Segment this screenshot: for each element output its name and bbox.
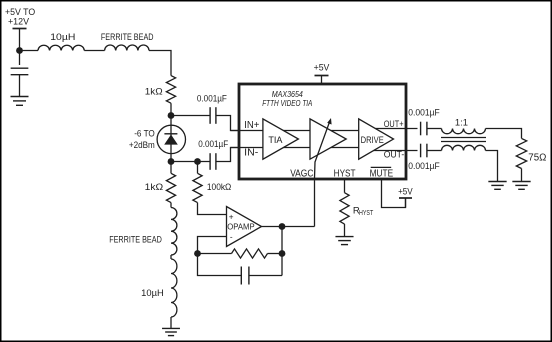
transformer T1 primary winding (442, 129, 486, 134)
wire opamp - input (198, 237, 227, 254)
svg-text:+5V TO: +5V TO (5, 7, 35, 17)
photodiode D1 circle (157, 125, 185, 153)
node C photodiode anode dot (168, 158, 175, 165)
resistor R2 1kΩ (166, 173, 175, 202)
VGA gain arrowhead (327, 118, 331, 125)
svg-text:0.001µF: 0.001µF (198, 139, 228, 149)
svg-text:IN-: IN- (244, 147, 258, 158)
svg-text:IN+: IN+ (244, 120, 259, 131)
svg-text:HYST: HYST (359, 210, 374, 217)
ferrite bead FB2 (171, 208, 177, 256)
node E feedback left dot (194, 250, 201, 257)
svg-text:+2dBm: +2dBm (129, 140, 155, 150)
ground G1 (11, 96, 29, 98)
svg-text:HYST: HYST (334, 168, 356, 179)
svg-text:10µH: 10µH (141, 288, 164, 298)
svg-text:VAGC: VAGC (290, 168, 313, 179)
resistor R6 75Ω (516, 138, 526, 168)
node A supply junction dot (16, 47, 23, 54)
wire R3 to opamp + (198, 203, 227, 215)
capacitor C1 bypass (11, 67, 29, 69)
wire R1 to node B (170, 103, 172, 115)
wire rail IN- inside chip (231, 147, 371, 149)
wire R2 to FB2 (170, 203, 172, 208)
op-amp DRIVE A3 triangle (359, 119, 394, 159)
op-amp U2 triangle (227, 207, 262, 247)
transformer T1 secondary winding (442, 145, 486, 150)
photodiode D1 cathode bar (164, 133, 177, 135)
wire VAGC arrow line (315, 122, 330, 179)
svg-text:FERRITE BEAD: FERRITE BEAD (101, 32, 154, 42)
transformer T1 core (441, 137, 486, 139)
resistor R4 feedback (232, 249, 268, 258)
wire R4 to node G (268, 253, 283, 255)
svg-text:0.001µF: 0.001µF (197, 93, 227, 103)
resistor R5 RHYST (340, 193, 349, 224)
svg-text:MUTE: MUTE (370, 168, 394, 179)
svg-text:OUT-: OUT- (384, 149, 405, 160)
svg-text:OPAMP: OPAMP (227, 221, 255, 231)
wire HYST riser (344, 180, 346, 193)
wire R6 to ground (521, 169, 523, 182)
svg-text:+5V: +5V (398, 187, 413, 197)
ground G4 (488, 181, 506, 183)
ground G3 (335, 236, 353, 238)
svg-text:-6 TO: -6 TO (134, 128, 155, 138)
wire VAGC riser (314, 180, 316, 226)
wire node C to C3 (171, 161, 210, 163)
svg-text:0.001µF: 0.001µF (408, 108, 440, 118)
ground G2 (162, 327, 180, 329)
wire L2 to ground (170, 317, 172, 328)
ferrite bead FB1 (105, 45, 149, 51)
svg-text:0.001µF: 0.001µF (408, 161, 440, 171)
svg-text:+12V: +12V (8, 17, 29, 27)
op-amp VGA A2 triangle (310, 119, 346, 159)
IC U1 MAX3654 outline (239, 84, 406, 179)
op-amp TIA A1 triangle (263, 119, 299, 159)
wire rail IN+ inside chip (231, 130, 371, 132)
wire supply node down to C1 (19, 51, 21, 66)
svg-text:TIA: TIA (268, 135, 282, 145)
resistor R1 1kΩ (166, 76, 175, 104)
capacitor C6 0.001µF OUT- (420, 144, 422, 158)
wire C6 to T1 (427, 150, 442, 152)
svg-text:10µH: 10µH (50, 32, 75, 42)
capacitor C5 0.001µF OUT+ (420, 122, 422, 136)
wire T1 secondary to ground (486, 151, 498, 182)
resistor R3 100kΩ (193, 173, 202, 202)
node G feedback right dot (279, 250, 286, 257)
svg-text:1kΩ: 1kΩ (145, 182, 164, 192)
wire node E to R4 (198, 253, 232, 255)
svg-text:-: - (230, 232, 233, 241)
wire opamp output to VAGC riser (262, 226, 315, 228)
wire through D1 (170, 116, 172, 162)
svg-text:OUT+: OUT+ (384, 118, 404, 129)
svg-text:1kΩ: 1kΩ (145, 87, 163, 97)
inductor L1 10µH (38, 45, 84, 50)
wire C1 to ground (19, 75, 21, 97)
wire L1 to FB1 (84, 50, 104, 52)
supply +5V top T-bar (315, 75, 329, 77)
MUTE overline (371, 166, 392, 168)
inductor L2 10µH (171, 259, 177, 317)
capacitor C2 0.001µF IN+ (209, 107, 211, 124)
wire node D to R3 (197, 162, 199, 174)
wire C3 to IN- pin (216, 148, 241, 162)
wire C5 to T1 (427, 128, 442, 130)
wire rail OUT- (368, 150, 418, 152)
svg-text:100kΩ: 100kΩ (207, 182, 232, 192)
wire node F down to node G (281, 227, 283, 276)
wire C2 to IN+ pin (216, 116, 241, 131)
wire C4 to node G (249, 275, 282, 277)
node D 100k junction dot (194, 158, 201, 165)
svg-text:+: + (229, 213, 234, 222)
svg-text:FTTH VIDEO TIA: FTTH VIDEO TIA (262, 98, 312, 108)
ground G5 (512, 181, 530, 183)
wire rail OUT+ (368, 128, 418, 130)
svg-text:1:1: 1:1 (455, 117, 468, 127)
wire R5 to ground (344, 224, 346, 237)
wire node C to R2 (170, 162, 172, 174)
wire supply node to 10µH (20, 50, 39, 52)
capacitor C3 0.001µF IN- (209, 153, 211, 170)
node F opamp output dot (279, 223, 286, 230)
capacitor C4 feedback (240, 267, 242, 285)
supply +12V T-bar terminal (13, 28, 27, 30)
node B photodiode cathode dot (168, 112, 175, 119)
svg-text:DRIVE: DRIVE (361, 135, 384, 145)
svg-text:+5V: +5V (314, 62, 330, 72)
svg-text:75Ω: 75Ω (528, 152, 547, 163)
wire MUTE to +5V (382, 180, 406, 208)
wire node E to C4 (198, 254, 242, 276)
wire node B to C2 (171, 115, 210, 117)
wire T1 primary to R6 (486, 129, 522, 139)
wire FB1 to R1 (149, 51, 171, 76)
svg-text:FERRITE BEAD: FERRITE BEAD (109, 235, 162, 245)
supply +5V MUTE T-bar (399, 197, 412, 199)
photodiode D1 arrow triangle (164, 135, 178, 145)
